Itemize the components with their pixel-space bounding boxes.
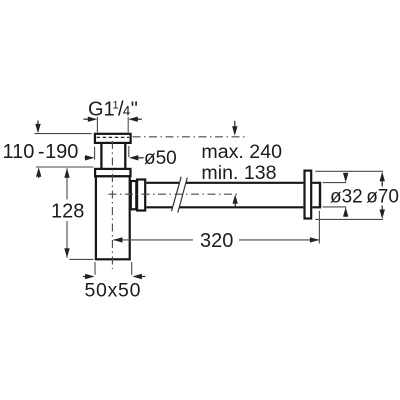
svg-text:50x50: 50x50	[85, 280, 142, 302]
dimension 128 top arrow	[64, 168, 69, 178]
inlet tube right wall	[124, 144, 126, 169]
dimension 50x50 left arrow	[83, 274, 95, 279]
dimension 110-190 top arrow	[35, 121, 40, 134]
dimension G1 1/4 ext line left	[96, 117, 98, 132]
svg-text:ø32: ø32	[330, 187, 363, 208]
dimension ø32 bottom arrow	[343, 207, 348, 217]
wall flange	[305, 171, 312, 219]
pipe break mark 1	[172, 177, 182, 211]
trap cup body	[96, 176, 130, 259]
dimension 50x50 ext line right	[131, 262, 133, 275]
centerline vertical (trap axis)	[111, 141, 113, 269]
centerline horizontal top (inlet level)	[133, 136, 247, 138]
dimension max/min bottom arrow	[233, 194, 238, 208]
dimension ø50 left arrow	[85, 155, 95, 160]
dimension ø70 bottom arrow	[380, 206, 385, 220]
dimension 128 line upper segment	[66, 168, 68, 199]
trap lid	[95, 169, 130, 176]
svg-text:G11/4": G11/4"	[88, 99, 138, 121]
dimension 320 ext line right	[318, 211, 320, 244]
dimension 50x50 ext line left	[94, 262, 96, 275]
dimension ø50 right arrow	[129, 155, 144, 160]
dimension max/min top arrow	[232, 121, 237, 136]
dimension G1 1/4 right arrow	[128, 117, 142, 122]
dimension 50x50 right arrow	[132, 274, 145, 279]
svg-text:320: 320	[200, 230, 233, 252]
dimension ø50 ext line right	[128, 146, 130, 157]
dimension G1 1/4 ext line right	[127, 117, 129, 132]
dimension ø70 top arrow	[380, 172, 385, 187]
dimension ø70 ext line top	[315, 170, 383, 172]
pipe bottom edge	[146, 206, 303, 208]
outlet stub (olive)	[131, 181, 137, 209]
dimension 128 line lower segment	[66, 221, 68, 258]
dimension 320 line left segment	[113, 239, 193, 241]
dimension ø32 ext line top	[323, 182, 347, 184]
svg-text:ø50: ø50	[144, 148, 177, 169]
svg-text:128: 128	[51, 201, 84, 223]
svg-text:110-190: 110-190	[3, 141, 79, 163]
wall pipe end cap line	[319, 182, 321, 209]
pipe break mark 2	[178, 178, 188, 213]
dimension 128 bottom arrow	[64, 248, 69, 257]
outlet nut	[137, 180, 145, 211]
dimension 320 right arrow	[310, 237, 320, 242]
svg-text:max. 240: max. 240	[201, 141, 282, 163]
svg-text:min. 138: min. 138	[201, 162, 276, 184]
svg-text:ø70: ø70	[366, 187, 399, 208]
pipe top edge	[146, 182, 303, 184]
dimension 320 line right segment	[239, 239, 319, 241]
centerline horizontal pipe axis	[109, 193, 241, 195]
dimension G1 1/4 left arrow	[84, 117, 98, 122]
top flange (inlet rosette)	[95, 134, 131, 143]
wall pipe end stub	[312, 183, 319, 208]
dimension 110-190 bottom arrow	[36, 167, 41, 178]
dimension ø70 ext line bottom	[315, 218, 383, 220]
dimension ø32 ext line bottom	[323, 206, 347, 208]
dimension 110-190 ext line bottom	[36, 166, 94, 168]
dimension ø32 top arrow	[343, 173, 348, 183]
dimension 128 ext line bottom	[69, 258, 93, 260]
dimension ø50 ext line left	[94, 147, 96, 160]
dimension 320 left arrow	[113, 237, 123, 242]
inlet tube left wall	[100, 144, 102, 169]
top flange hidden line (dashed)	[97, 136, 130, 138]
dimension 110-190 ext line top	[35, 133, 92, 135]
